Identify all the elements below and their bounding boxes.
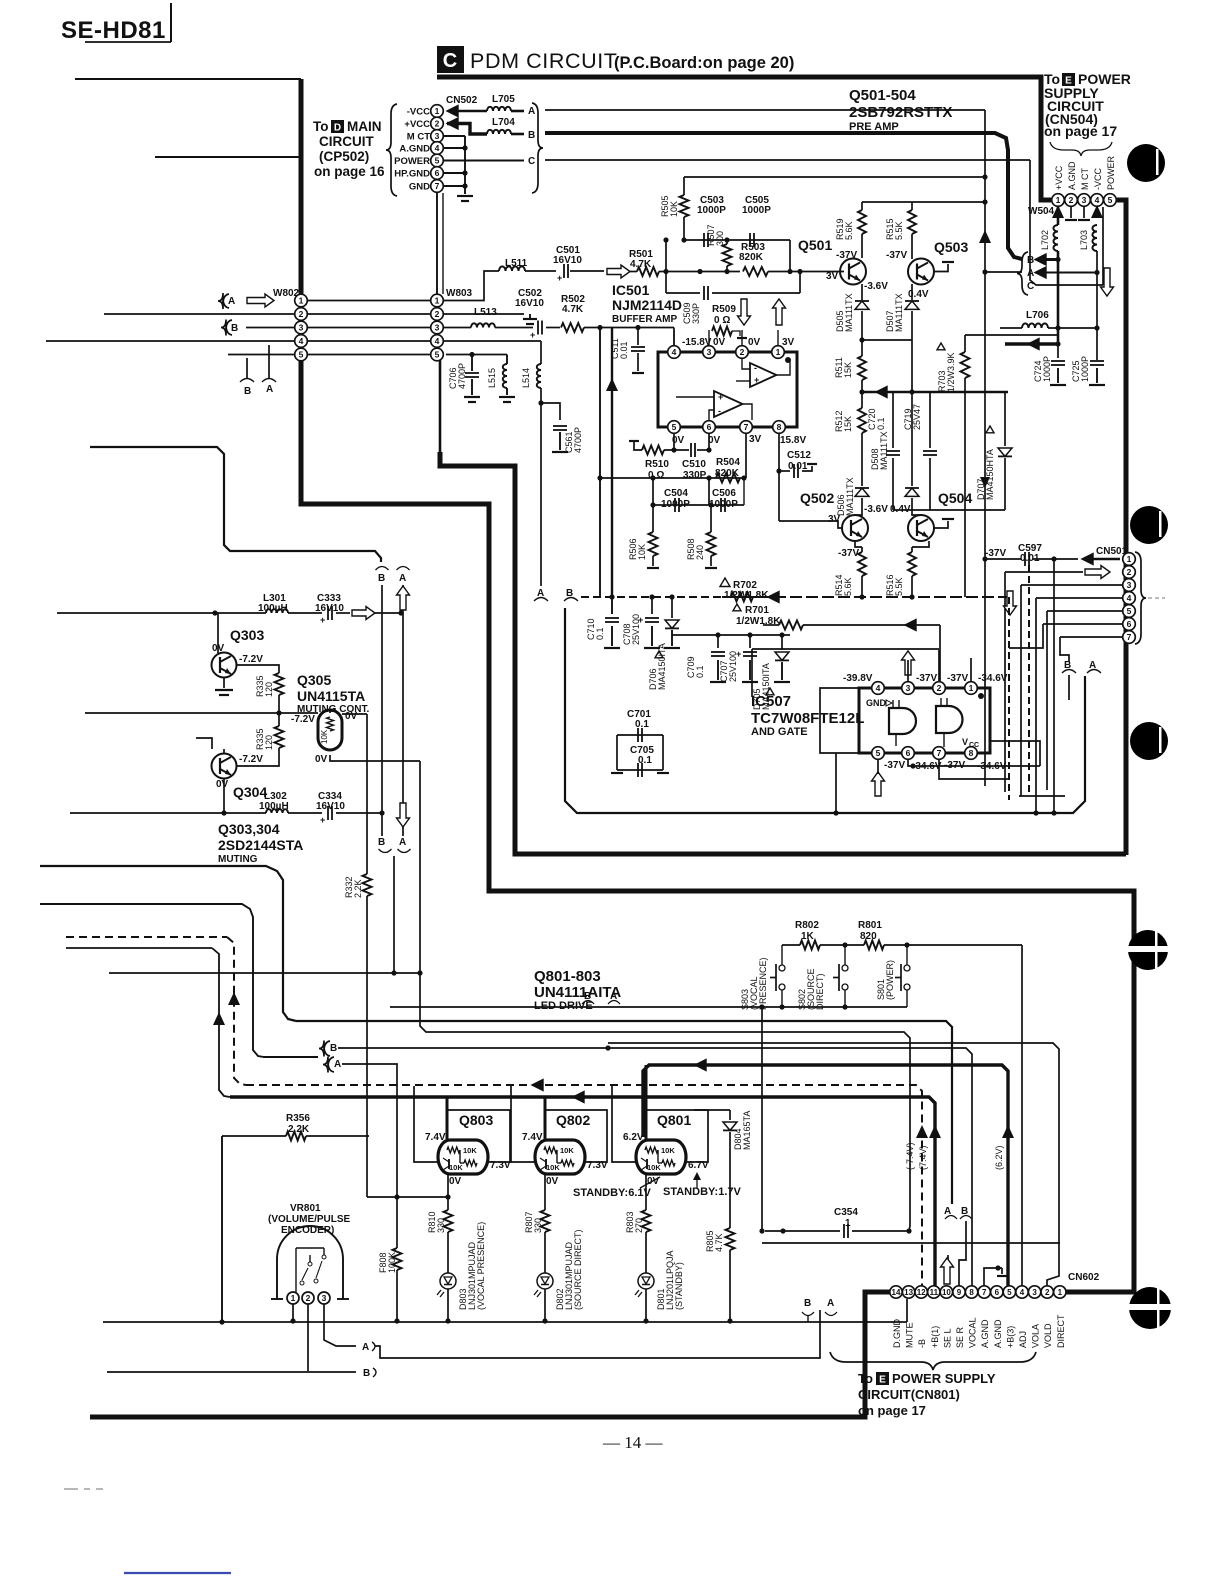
wire Q802 emitter: [544, 1174, 546, 1210]
wire W803 pin2 with ground: [444, 313, 524, 315]
svg-text:0.01: 0.01: [619, 341, 629, 359]
svg-text:CIRCUIT(CN801): CIRCUIT(CN801): [858, 1387, 960, 1402]
svg-text:6: 6: [1127, 619, 1132, 629]
svg-text:8: 8: [777, 422, 782, 432]
svg-text:+: +: [718, 392, 723, 402]
svg-text:ADJ: ADJ: [1018, 1331, 1028, 1348]
wire C to power connector: [545, 159, 1030, 161]
svg-text:15.8V: 15.8V: [780, 435, 806, 446]
svg-text:C504: C504: [664, 488, 688, 499]
svg-text:C512: C512: [787, 450, 811, 461]
thick -37V row with arrow: [862, 391, 1008, 394]
svg-text:0V: 0V: [713, 337, 726, 348]
wire R501 node up to row y240: [665, 240, 667, 272]
ground Q303 emitter: [223, 677, 225, 688]
svg-text:7: 7: [1127, 632, 1132, 642]
svg-text:Q801-803: Q801-803: [534, 968, 601, 985]
LED D802 LNJ301MPUJAD: [537, 1273, 553, 1289]
svg-text:GND: GND: [409, 182, 430, 193]
blue underline bottom left: [124, 1572, 231, 1574]
svg-text:(7.4V): (7.4V): [918, 1145, 928, 1170]
wire tie row y510: [893, 509, 1005, 511]
svg-text:-7.2V: -7.2V: [239, 654, 263, 665]
svg-text:14: 14: [892, 1288, 901, 1297]
svg-text:10: 10: [942, 1288, 951, 1297]
IC507 pin 2: [933, 682, 946, 695]
capacitor C504 1000P: [652, 478, 654, 505]
thick border inner left and bottom: [440, 452, 1126, 854]
svg-text:1/2W3.9K: 1/2W3.9K: [946, 352, 956, 392]
encoder VR801 pin 2: [302, 1292, 314, 1304]
svg-text:A: A: [399, 573, 406, 584]
thick border right edge: [1117, 200, 1126, 855]
svg-text:0 Ω: 0 Ω: [714, 315, 730, 326]
wire vertical x600: [599, 328, 601, 598]
svg-text:4: 4: [876, 683, 881, 693]
svg-text:4.7K: 4.7K: [562, 304, 584, 315]
svg-text:AND GATE: AND GATE: [751, 726, 808, 738]
svg-text:A.GND: A.GND: [980, 1319, 990, 1348]
wire Q504 emitter to R516: [912, 541, 929, 547]
connector W504 pin 1: [1052, 194, 1065, 207]
svg-text:-B: -B: [917, 1339, 927, 1348]
connector CN602 pin 1: [1054, 1286, 1066, 1298]
svg-text:1: 1: [1056, 195, 1061, 205]
svg-text:10K: 10K: [320, 729, 329, 744]
svg-text:10K: 10K: [669, 201, 679, 217]
LED D801 LNJ201LPQJA: [638, 1273, 654, 1289]
wire W803 pin1 to L511: [444, 271, 499, 301]
svg-text:3V: 3V: [782, 337, 795, 348]
medium bus y813: [565, 608, 1085, 813]
wire A node to Q803 emitter: [367, 1196, 448, 1198]
IC507 pin wires: [907, 660, 909, 681]
wire VR801 pin1 to bus: [292, 1304, 294, 1321]
svg-text:POWER: POWER: [394, 156, 430, 167]
svg-text:W803: W803: [446, 288, 473, 299]
svg-text:Q503: Q503: [934, 239, 968, 255]
capacitor C512 0.01: [778, 434, 780, 471]
wire Q802 loop: [545, 1110, 607, 1162]
node B A below W802: [246, 358, 248, 378]
svg-text:0.1: 0.1: [595, 627, 605, 640]
svg-text:15K: 15K: [843, 416, 853, 432]
svg-text:C: C: [528, 156, 535, 167]
wire W802-W803 row 2: [308, 313, 430, 315]
svg-text:MA165TA: MA165TA: [742, 1111, 752, 1150]
bus from left y948: [66, 947, 212, 949]
svg-text:R802: R802: [795, 920, 819, 931]
svg-text:7: 7: [744, 422, 749, 432]
underbrace CN602: [830, 1352, 1036, 1370]
svg-text:R510: R510: [645, 459, 669, 470]
svg-text:MA111TX: MA111TX: [879, 431, 889, 470]
connector CN602 pin 9: [953, 1286, 965, 1298]
op-amp B inside IC501: [714, 391, 743, 417]
svg-text:4: 4: [435, 143, 440, 153]
wires CN502 pins 3,4,6,7: [444, 135, 465, 137]
svg-text:-15.8V: -15.8V: [682, 337, 712, 348]
registration mark 2: [1130, 506, 1168, 544]
IC501 pin top stubs: [673, 330, 675, 345]
svg-text:1000P: 1000P: [1042, 356, 1052, 382]
wire CN501 verticals: [1004, 572, 1006, 792]
svg-text:+B(3): +B(3): [1005, 1326, 1015, 1348]
wire left margin row3: [246, 327, 294, 329]
wire S column x762: [761, 1007, 763, 1231]
wire CN502 pin5 to C: [444, 160, 524, 162]
svg-text:11: 11: [930, 1288, 939, 1297]
svg-text:+VCC: +VCC: [404, 119, 430, 130]
svg-text:Q304: Q304: [233, 784, 267, 800]
bus from left y904 to node A: [40, 904, 318, 1057]
registration mark 1: [1127, 144, 1165, 182]
svg-text:VOLD: VOLD: [1043, 1323, 1053, 1348]
AND gate symbol 1: [889, 708, 916, 734]
inductor L705: [447, 106, 458, 117]
svg-text:7: 7: [435, 181, 440, 191]
connector CN502 pin 3: [431, 130, 444, 143]
svg-text:0V: 0V: [315, 754, 328, 765]
brace B A C receive: [1017, 252, 1028, 295]
svg-text:(SOURCE DIRECT): (SOURCE DIRECT): [573, 1229, 583, 1310]
thick border outer path: [301, 79, 1134, 1292]
hollow arrow down at IC501 pin2: [738, 299, 751, 325]
IC507 pin 7: [933, 747, 946, 760]
svg-text:10K: 10K: [647, 1163, 661, 1172]
wire W803 pin5 row: [446, 354, 507, 356]
svg-text:240: 240: [695, 545, 705, 560]
svg-text:-37V: -37V: [916, 673, 937, 684]
thick output wire with left arrow: [1005, 342, 1058, 345]
connector CN501 pin 6: [1123, 618, 1136, 631]
svg-text:-3.6V: -3.6V: [864, 504, 888, 515]
thick bus y1097 to CN602 pin11: [230, 1097, 935, 1286]
svg-text:Q501: Q501: [798, 237, 832, 253]
wire W803 pin5 to inner border: [439, 354, 442, 453]
IC507 pin 3: [902, 682, 915, 695]
capacitor C707 25V100: [749, 635, 751, 648]
inductor L702: [1057, 207, 1060, 225]
svg-text:4.7K: 4.7K: [714, 1233, 724, 1252]
connector W504 pin 4: [1091, 194, 1104, 207]
hollow arrow down near right border: [1101, 268, 1114, 296]
svg-text:1: 1: [435, 106, 440, 116]
capacitor C709 0.1: [717, 635, 719, 648]
svg-text:C354: C354: [834, 1207, 858, 1218]
wire R801 right to CN602 pin4: [1021, 945, 1023, 1286]
svg-text:M CT: M CT: [1080, 168, 1090, 190]
svg-text:-: -: [754, 363, 757, 373]
wire feedback row y478: [600, 477, 746, 479]
svg-text:3: 3: [322, 1293, 327, 1303]
svg-text:MUTING: MUTING: [218, 854, 258, 865]
wire Q303 base to R335: [236, 665, 279, 673]
bus row y1021: [296, 1021, 952, 1204]
svg-text:L515: L515: [487, 368, 497, 388]
svg-text:4: 4: [299, 336, 304, 346]
svg-text:10K: 10K: [463, 1146, 477, 1155]
svg-text:MA111TX: MA111TX: [845, 477, 855, 516]
svg-text:VOCAL: VOCAL: [968, 1317, 978, 1348]
svg-text:(POWER): (POWER): [885, 960, 895, 1000]
svg-text:-37V: -37V: [985, 548, 1006, 559]
svg-text:5: 5: [672, 422, 677, 432]
wire R703 top: [965, 334, 1058, 336]
connector CN501 pin 7: [1123, 631, 1136, 644]
wire W802-W803 row 1: [308, 300, 430, 302]
connector CN602 pin 10: [940, 1286, 952, 1298]
svg-text:2.2K: 2.2K: [353, 879, 363, 898]
svg-text:13: 13: [904, 1288, 913, 1297]
svg-text:TC7W08FTE12L: TC7W08FTE12L: [751, 710, 864, 727]
connector CN502 pin 6: [431, 167, 444, 180]
wire W802-W803 row 5: [308, 354, 430, 356]
cable from left to B A pair: [90, 447, 381, 562]
IC501 pin 5: [668, 421, 681, 434]
svg-text:15K: 15K: [843, 362, 853, 378]
svg-text:SE R: SE R: [955, 1326, 965, 1348]
svg-text:To: To: [858, 1371, 873, 1386]
wire CN502 down to W803: [436, 193, 438, 294]
svg-text:7: 7: [982, 1288, 987, 1297]
connector CN602 pin 2: [1041, 1286, 1053, 1298]
svg-text:5: 5: [1108, 195, 1113, 205]
hollow arrow right on L301 row: [352, 607, 375, 620]
svg-text:1: 1: [291, 1293, 296, 1303]
wire A vertical with arrows: [402, 585, 404, 836]
svg-text:8: 8: [969, 748, 974, 758]
IC501 pin 3: [703, 346, 716, 359]
svg-text:A: A: [528, 106, 535, 117]
svg-text:B: B: [244, 386, 251, 397]
svg-text:A: A: [362, 1342, 369, 1353]
svg-text:7.4V: 7.4V: [522, 1132, 543, 1143]
thick wire B to power connector: [545, 133, 1022, 259]
svg-text:2SB792RSTTX: 2SB792RSTTX: [849, 104, 952, 121]
svg-text:6: 6: [906, 748, 911, 758]
connector CN602 pin 14: [890, 1286, 902, 1298]
svg-text:4: 4: [1127, 593, 1132, 603]
connector CN602 pin 11: [928, 1286, 940, 1298]
AND gate symbol 2: [936, 706, 963, 733]
svg-text:STANDBY:6.1V: STANDBY:6.1V: [573, 1187, 651, 1199]
svg-text:1/2W1.8K: 1/2W1.8K: [724, 590, 769, 601]
connector W803 pin 4: [431, 335, 444, 348]
svg-text:R356: R356: [286, 1113, 310, 1124]
svg-text:9: 9: [957, 1288, 962, 1297]
svg-text:on page 16: on page 16: [314, 164, 385, 179]
svg-text:M CT: M CT: [407, 132, 430, 143]
svg-text:PDM CIRCUIT: PDM CIRCUIT: [470, 49, 618, 73]
connector W504 pin 3: [1078, 194, 1091, 207]
svg-text:330P: 330P: [691, 303, 701, 324]
wire CN501 pin6: [1043, 623, 1122, 625]
wire CN501 pin7: [1060, 636, 1122, 638]
svg-text:0.1: 0.1: [638, 755, 652, 766]
svg-text:-37V: -37V: [838, 548, 859, 559]
svg-text:(6.2V): (6.2V): [994, 1145, 1004, 1170]
wire long y973: [109, 972, 420, 974]
svg-text:+VCC: +VCC: [1054, 165, 1064, 190]
wire A row y1064: [342, 1064, 397, 1198]
svg-text:3: 3: [906, 683, 911, 693]
svg-text:3: 3: [435, 131, 440, 141]
connector W803 pin 5: [431, 348, 444, 361]
svg-text:2: 2: [1127, 567, 1132, 577]
IC501 pin 4: [668, 346, 681, 359]
signal arrow into R501: [607, 265, 630, 278]
connector CN502 pin 4: [431, 142, 444, 155]
svg-text:2: 2: [1069, 195, 1074, 205]
svg-text:0V: 0V: [216, 779, 229, 790]
svg-text:POWER: POWER: [1106, 155, 1116, 190]
svg-text:B: B: [231, 323, 238, 334]
svg-text:-: -: [718, 406, 721, 416]
svg-text:on page 17: on page 17: [1044, 123, 1117, 139]
svg-text:Q303: Q303: [230, 627, 264, 643]
svg-text:-39.8V: -39.8V: [843, 673, 873, 684]
svg-text:A.GND: A.GND: [1067, 161, 1077, 190]
svg-text:Q502: Q502: [800, 490, 834, 506]
svg-text:A: A: [399, 837, 406, 848]
wire IC507 pin2 top: [752, 648, 939, 650]
svg-text:(CP502): (CP502): [319, 149, 369, 164]
brace CN502 group: [386, 104, 397, 196]
IC501 pin 1: [772, 346, 785, 359]
svg-text:C510: C510: [682, 459, 706, 470]
connector W504 pin 2: [1065, 194, 1078, 207]
wire Q801 collector: [645, 1065, 648, 1140]
wire Q801 loop: [646, 1110, 708, 1162]
svg-text:PRESENCE): PRESENCE): [758, 957, 768, 1010]
svg-text:DIRECT: DIRECT: [1056, 1314, 1066, 1348]
svg-text:+: +: [530, 330, 535, 340]
registration mark 5: [1129, 1287, 1171, 1329]
connector CN602 pin 13: [902, 1286, 914, 1298]
connector CN602 pin 5: [1003, 1286, 1015, 1298]
IC507 pin 1: [965, 682, 978, 695]
svg-text:A: A: [1027, 268, 1034, 279]
encoder VR801 pin 3: [318, 1292, 330, 1304]
svg-text:820K: 820K: [739, 252, 764, 263]
wire node row y713: [85, 712, 318, 714]
svg-text:IC507: IC507: [751, 693, 791, 710]
connector CN501 pin 1: [1123, 553, 1136, 566]
svg-text:Q803: Q803: [459, 1112, 493, 1128]
wire collector load row y202: [862, 201, 985, 203]
IC501 pin 2: [736, 346, 749, 359]
svg-text:— 14 —: — 14 —: [602, 1433, 664, 1452]
wire C597 node down: [1053, 559, 1055, 813]
svg-text:-34.6V: -34.6V: [978, 673, 1008, 684]
svg-text:1: 1: [969, 683, 974, 693]
hollow arrow up below IC507 pin5: [872, 772, 885, 796]
svg-text:2: 2: [435, 309, 440, 319]
ground CN502: [464, 186, 466, 194]
svg-text:1: 1: [1127, 554, 1132, 564]
wire row y240: [684, 239, 790, 241]
IC501 pin 8: [773, 421, 786, 434]
wire Q802 collector: [544, 1097, 547, 1140]
connector W803 pin 3: [431, 321, 444, 334]
svg-text:0.1: 0.1: [695, 665, 705, 678]
IC507 pin 5: [872, 747, 885, 760]
svg-text:1000P: 1000P: [697, 205, 726, 216]
svg-text:4700P: 4700P: [457, 363, 467, 389]
svg-text:8: 8: [969, 1288, 974, 1297]
svg-text:L514: L514: [521, 368, 531, 388]
IC507 pin 6: [902, 747, 915, 760]
svg-text:(-7.4V): (-7.4V): [905, 1142, 915, 1170]
wire L301 row: [57, 612, 215, 614]
svg-text:820: 820: [860, 931, 877, 942]
wire y714 stub to R332: [342, 713, 367, 715]
svg-text:2SD2144STA: 2SD2144STA: [218, 837, 303, 853]
svg-text:10K: 10K: [546, 1163, 560, 1172]
svg-text:6: 6: [995, 1288, 1000, 1297]
capacitor C510 330P: [690, 443, 692, 457]
svg-text:POWER SUPPLY: POWER SUPPLY: [892, 1371, 996, 1386]
svg-text:-37V: -37V: [836, 250, 857, 261]
svg-text:10K: 10K: [637, 544, 647, 560]
svg-text:C: C: [443, 50, 457, 72]
wire feedback top y177: [684, 176, 985, 178]
ground stubs W504 pins 2,3: [1070, 207, 1072, 218]
svg-text:DIRECT): DIRECT): [815, 974, 825, 1011]
IC507 pin 8: [965, 747, 978, 760]
wire W802-W803 row 3: [308, 327, 430, 329]
svg-text:4: 4: [1020, 1288, 1025, 1297]
wire Q803 loop: [447, 1110, 510, 1162]
svg-text:Q504: Q504: [938, 490, 972, 506]
svg-text:3: 3: [1032, 1288, 1037, 1297]
stub above Q304: [196, 738, 212, 749]
svg-text:2: 2: [740, 347, 745, 357]
wire Q803 emitter: [447, 1174, 449, 1210]
svg-text:25V100: 25V100: [631, 614, 641, 645]
svg-text:4: 4: [435, 336, 440, 346]
connector CN502 pin 7: [431, 180, 444, 193]
svg-text:To: To: [313, 119, 329, 134]
svg-text:+: +: [320, 615, 325, 625]
svg-text:7.4V: 7.4V: [425, 1132, 446, 1143]
diode D706 MA4150ITA: [671, 597, 673, 618]
diode D705 MA4150ITA: [781, 635, 783, 650]
svg-text:5: 5: [435, 156, 440, 166]
svg-text:5: 5: [299, 350, 304, 360]
brace W504 group: [1050, 142, 1112, 156]
svg-text:CN501: CN501: [1096, 546, 1128, 557]
wire x222 from R356 down: [221, 1136, 223, 1322]
svg-text:L513: L513: [474, 307, 497, 318]
wire row y1243: [762, 1242, 1060, 1244]
svg-text:MAIN: MAIN: [347, 119, 382, 134]
svg-text:B: B: [378, 573, 385, 584]
svg-text:L702: L702: [1040, 230, 1050, 250]
svg-text:A: A: [228, 296, 235, 307]
dashed bus y597: [581, 596, 722, 598]
svg-text:16V10: 16V10: [316, 801, 345, 812]
svg-text:B: B: [330, 1043, 337, 1054]
svg-text:B: B: [528, 130, 535, 141]
connector CN602 pin 8: [965, 1286, 977, 1298]
svg-text:R801: R801: [858, 920, 882, 931]
svg-text:6: 6: [435, 168, 440, 178]
wire C505 down to main row: [789, 240, 791, 272]
registration mark 3: [1130, 722, 1168, 760]
svg-text:MA4150HTA: MA4150HTA: [985, 449, 995, 500]
